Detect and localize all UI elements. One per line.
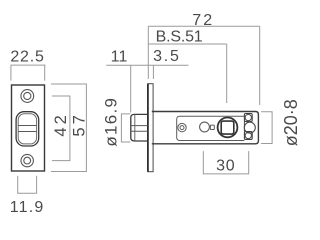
svg-text:3.5: 3.5 (153, 48, 181, 65)
end cap middle circle (244, 122, 255, 133)
svg-text:ø20·8: ø20·8 (281, 99, 300, 146)
dimension phi 20.8 (261, 99, 301, 146)
dimension 22.5 (10, 49, 45, 81)
svg-text:11.9: 11.9 (10, 199, 45, 216)
svg-text:ø16.9: ø16.9 (102, 97, 121, 147)
latch bolt front view (16, 112, 39, 146)
end cap top square hole (244, 114, 252, 122)
case inner plate (177, 116, 245, 140)
case round hole (200, 122, 210, 132)
dimension 11 (106, 49, 188, 113)
dimension 42 (52, 96, 70, 161)
svg-text:22.5: 22.5 (10, 49, 44, 66)
spindle follower ring (218, 118, 238, 138)
dimension 30 (203, 151, 248, 174)
end cap connecting line (243, 121, 245, 131)
svg-text:B.S.51: B.S.51 (156, 29, 203, 46)
top screw hole (21, 90, 34, 103)
svg-text:42: 42 (52, 112, 70, 136)
end cap bottom square hole (244, 132, 252, 140)
svg-text:30: 30 (216, 158, 235, 175)
case small square hole (210, 125, 214, 129)
dimension 3.5 (153, 48, 181, 79)
dimension B.S.51 (148, 29, 226, 104)
dimension 11.9 (10, 176, 45, 216)
bottom screw hole (21, 154, 33, 166)
latch case outline side view (152, 112, 259, 144)
case pin hole (178, 123, 186, 131)
dimension 72 (148, 12, 259, 105)
svg-text:57: 57 (71, 112, 89, 136)
dimension 57 (51, 84, 89, 172)
spindle square hole (221, 121, 234, 134)
dimension phi 16.9 (102, 97, 131, 147)
faceplate side view (148, 84, 153, 172)
latch bolt side view (131, 114, 148, 141)
faceplate front view (12, 85, 45, 171)
svg-text:11: 11 (111, 49, 128, 66)
